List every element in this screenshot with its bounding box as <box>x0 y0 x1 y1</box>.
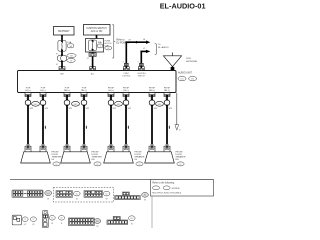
svg-text:M44: M44 <box>191 79 194 81</box>
svg-text:M2: M2 <box>70 60 72 62</box>
svg-text:-SUPER: -SUPER <box>171 188 180 190</box>
svg-text:ACC or ON: ACC or ON <box>91 30 103 33</box>
svg-text:Refer to the following.: Refer to the following. <box>152 181 175 184</box>
svg-text:D7: D7 <box>32 219 34 221</box>
svg-text:D5: D5 <box>24 219 26 221</box>
svg-text:W: W <box>51 223 53 225</box>
svg-text:RH (+): RH (+) <box>64 90 70 92</box>
svg-text:LH (-): LH (-) <box>40 90 46 92</box>
svg-text:M4: M4 <box>60 218 62 220</box>
svg-text:M43: M43 <box>74 104 78 106</box>
svg-text:M43: M43 <box>47 193 50 195</box>
svg-text:M4: M4 <box>144 195 146 197</box>
svg-text:M33: M33 <box>70 56 73 58</box>
svg-text:Refer to: Refer to <box>116 39 125 42</box>
svg-text:M2: M2 <box>105 194 107 196</box>
svg-text:IGNITION SWITCH: IGNITION SWITCH <box>87 28 107 30</box>
svg-text:M2: M2 <box>107 48 109 50</box>
svg-text:M2: M2 <box>51 218 53 220</box>
svg-text:SWITCH: SWITCH <box>138 75 146 77</box>
svg-text:RH (-): RH (-) <box>164 90 170 92</box>
svg-text:CONTROL: CONTROL <box>122 75 131 77</box>
svg-text:RH: RH <box>92 159 96 161</box>
svg-text:W: W <box>106 198 108 200</box>
svg-text:RH (+): RH (+) <box>149 90 155 92</box>
svg-text:W: W <box>96 226 98 228</box>
svg-text:ANTENNA: ANTENNA <box>186 60 197 63</box>
svg-text:D5: D5 <box>96 164 98 166</box>
svg-text:W: W <box>131 223 133 225</box>
svg-text:ROD: ROD <box>186 58 191 60</box>
svg-text:M43: M43 <box>34 104 38 106</box>
svg-text:EL-AUDIO: EL-AUDIO <box>158 46 169 49</box>
svg-text:15A: 15A <box>67 41 71 44</box>
svg-text:RH (-): RH (-) <box>81 90 87 92</box>
svg-text:EL-AUDIO-01: EL-AUDIO-01 <box>160 1 206 10</box>
svg-text:M43: M43 <box>96 221 99 223</box>
svg-text:LH (+): LH (+) <box>108 90 114 92</box>
svg-text:LH (-): LH (-) <box>123 90 129 92</box>
svg-text:W: W <box>76 198 78 200</box>
svg-text:D5: D5 <box>55 164 57 166</box>
svg-text:8: 8 <box>138 62 139 64</box>
svg-text:M43: M43 <box>158 104 162 106</box>
svg-text:M43: M43 <box>180 79 183 81</box>
svg-text:D5: D5 <box>179 164 181 166</box>
svg-text:M44: M44 <box>130 218 133 220</box>
svg-text:W: W <box>144 200 146 202</box>
svg-text:8: 8 <box>123 62 124 64</box>
svg-text:W: W <box>47 199 49 201</box>
svg-text:BATTERY: BATTERY <box>58 29 70 33</box>
svg-text:MULTIPLE JUNCTION (SMJ): MULTIPLE JUNCTION (SMJ) <box>152 192 181 194</box>
svg-text:AUDIO UNIT: AUDIO UNIT <box>178 72 192 75</box>
svg-text:M43: M43 <box>117 104 121 106</box>
svg-text:LH (+): LH (+) <box>25 90 31 92</box>
svg-text:D5: D5 <box>138 164 140 166</box>
svg-text:M1: M1 <box>76 194 78 196</box>
svg-text:10A: 10A <box>98 41 102 44</box>
svg-text:RH: RH <box>176 159 180 161</box>
